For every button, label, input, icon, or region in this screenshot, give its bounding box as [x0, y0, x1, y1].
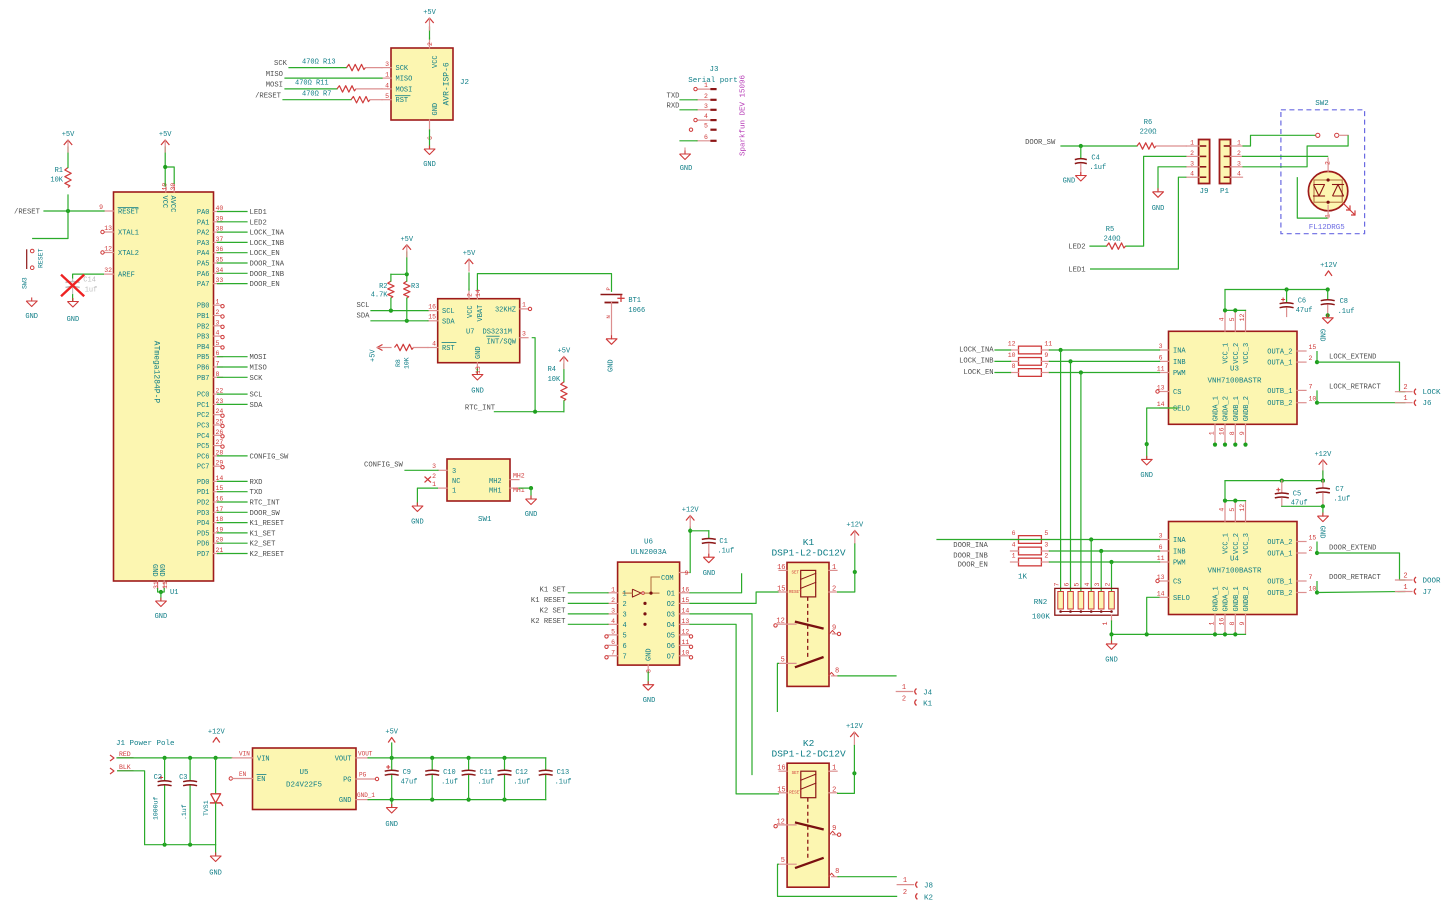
wire LOCK_INA to U3 INA: [1049, 348, 1159, 352]
ground RN2: [1105, 634, 1118, 664]
svg-text:8: 8: [1012, 363, 1016, 370]
connector J9: [1199, 140, 1210, 197]
U3 pin OUTA_1 2: [1267, 355, 1312, 368]
ground U6: [643, 682, 656, 705]
ground SW1 MH1: [525, 496, 538, 519]
svg-text:RXD: RXD: [667, 103, 680, 111]
K1 pin 15: [777, 586, 787, 594]
svg-text:VCC_1: VCC_1: [1223, 343, 1231, 364]
svg-text:SW2: SW2: [1315, 100, 1329, 108]
svg-text:C8: C8: [1340, 298, 1348, 306]
svg-text:LED2: LED2: [1068, 244, 1085, 252]
wire +5V to U1 VCC: [163, 147, 174, 186]
svg-text:MOSI: MOSI: [266, 82, 283, 90]
svg-text:+5V: +5V: [558, 348, 571, 356]
svg-text:PB6: PB6: [197, 365, 210, 373]
ground SW1 pin1: [411, 503, 424, 527]
wire K2 pin8: [838, 876, 896, 878]
K1 dashed actuator link: [807, 597, 809, 660]
svg-text:OUTB_2: OUTB_2: [1267, 400, 1292, 408]
svg-text:1: 1: [704, 82, 708, 89]
wire K1_SET: [218, 532, 248, 534]
svg-text:GNDA_2: GNDA_2: [1223, 586, 1231, 611]
net label LOCK_EN: [250, 250, 280, 258]
wire J9 pin4 to LED1: [1090, 177, 1186, 269]
svg-text:3: 3: [1159, 343, 1163, 350]
diode TVS1: [203, 758, 223, 845]
wire DOOR_EN to U4 PWM: [1049, 560, 1159, 564]
svg-text:OUTA_2: OUTA_2: [1267, 539, 1292, 547]
wire K1_RESET: [218, 522, 248, 524]
svg-text:4: 4: [704, 113, 708, 120]
net label LOCK_INB: [959, 358, 994, 366]
U1 pin PB2 3: [197, 319, 223, 331]
wire RN2 col7: [1060, 350, 1062, 592]
svg-text:.1uf: .1uf: [555, 779, 572, 787]
U3 pin OUTB_2 10: [1267, 396, 1316, 409]
wire TXD J3: [680, 99, 697, 101]
svg-text:R1: R1: [55, 167, 63, 175]
svg-text:+12V: +12V: [846, 522, 864, 530]
capacitor C10 .1uf: [425, 758, 458, 800]
wire J3 pin6: [680, 140, 697, 142]
U7 pin INT/SQW 3: [487, 331, 528, 347]
SW1 pin MH1: [510, 487, 525, 494]
svg-text:LOCK_INB: LOCK_INB: [250, 240, 285, 248]
svg-text:5: 5: [781, 857, 785, 865]
SW1 pin 3: [432, 463, 447, 470]
svg-text:12: 12: [776, 819, 784, 827]
wire U6 GND: [647, 672, 649, 684]
wire LOCK_EN: [218, 252, 248, 254]
svg-text:SCL: SCL: [357, 302, 370, 310]
svg-text:1: 1: [452, 488, 456, 496]
svg-text:3: 3: [1094, 583, 1101, 587]
svg-text:OUTA_1: OUTA_1: [1267, 360, 1292, 368]
J3 pin 5: [689, 123, 715, 132]
svg-text:6: 6: [1159, 544, 1163, 551]
wire INT/SQW to RTC_INT: [532, 338, 535, 412]
svg-text:K2: K2: [924, 894, 933, 902]
svg-text:+5V: +5V: [423, 9, 436, 17]
svg-text:XTAL2: XTAL2: [118, 250, 139, 258]
svg-text:RESET: RESET: [38, 248, 45, 268]
svg-text:PD2: PD2: [197, 500, 210, 508]
resistor pack element pins 6-5: [1011, 530, 1050, 543]
net label LOCK_INA: [959, 346, 994, 354]
svg-text:SET: SET: [792, 571, 800, 575]
svg-text:4: 4: [1237, 171, 1241, 178]
svg-text:R4: R4: [548, 366, 556, 374]
K2 pin 1: [829, 765, 837, 773]
U5 pin VIN: [232, 751, 269, 764]
svg-text:RTC_INT: RTC_INT: [250, 500, 281, 508]
svg-text:2: 2: [1325, 161, 1332, 165]
ground power input: [209, 845, 222, 878]
svg-text:PB7: PB7: [197, 375, 210, 383]
resistor pack element pins 8-7: [1011, 363, 1050, 376]
svg-text:K1_SET: K1_SET: [250, 530, 277, 538]
svg-text:GND: GND: [703, 570, 716, 578]
IC U4 VNH7100BASTR: [1169, 522, 1298, 615]
svg-text:O1: O1: [667, 590, 675, 598]
svg-text:4: 4: [216, 330, 220, 337]
IC U3 VNH7100BASTR: [1169, 331, 1298, 424]
svg-text:VCC_2: VCC_2: [1233, 343, 1241, 364]
svg-text:RST: RST: [396, 97, 409, 105]
svg-text:PD3: PD3: [197, 510, 210, 518]
net label K1_RESET: [250, 520, 285, 528]
svg-text:U1: U1: [170, 589, 178, 597]
svg-text:GND: GND: [25, 313, 38, 321]
svg-text:VNH7100BASTR: VNH7100BASTR: [1207, 568, 1262, 576]
svg-text:+12V: +12V: [846, 723, 864, 731]
svg-text:VCC: VCC: [467, 305, 475, 318]
svg-text:5: 5: [781, 656, 785, 664]
svg-text:R2: R2: [379, 283, 387, 291]
svg-text:9: 9: [99, 204, 103, 211]
svg-text:.1uf: .1uf: [441, 779, 458, 787]
svg-text:DS3231M: DS3231M: [483, 329, 512, 337]
wire DOOR_INA to U4 INA: [937, 537, 1160, 541]
svg-text:VCC_1: VCC_1: [1223, 533, 1231, 554]
svg-text:TXD: TXD: [250, 489, 263, 497]
SW2 contact circles: [1316, 133, 1339, 137]
svg-text:U5: U5: [299, 769, 309, 777]
wire LED2: [218, 221, 248, 223]
svg-text:2: 2: [1309, 355, 1313, 362]
svg-text:5: 5: [1074, 583, 1081, 587]
K1 pin 1: [829, 564, 837, 572]
svg-text:D24V22F5: D24V22F5: [286, 782, 323, 790]
svg-text:CONFIG_SW: CONFIG_SW: [250, 453, 290, 461]
svg-text:GND: GND: [680, 165, 693, 173]
wire RN2 col6: [1070, 361, 1072, 592]
U6 pin 2: [608, 597, 627, 609]
resistor pack element pins 10-9: [1008, 352, 1050, 365]
U1 pin PB0 1: [197, 299, 223, 311]
svg-text:GND: GND: [157, 564, 165, 577]
K1 contact pin 9: [830, 624, 841, 635]
svg-text:1: 1: [385, 72, 389, 79]
svg-text:INA: INA: [1173, 348, 1186, 356]
U1 pin PD7 21: [197, 547, 224, 559]
svg-text:CS: CS: [1173, 389, 1181, 397]
J9 pin 4: [1186, 171, 1198, 178]
svg-text:J8: J8: [924, 883, 933, 891]
svg-text:PC0: PC0: [197, 392, 210, 400]
wire MISO J2: [285, 77, 382, 79]
svg-text:15: 15: [777, 586, 785, 594]
net label RXD: [250, 479, 263, 487]
svg-text:1: 1: [1012, 553, 1016, 560]
U1 pin PA2 38: [197, 226, 224, 238]
RN2 pin 1: [1102, 615, 1112, 625]
wire SDA: [218, 403, 248, 405]
net label LOCK_INA: [250, 230, 285, 238]
svg-text:MISO: MISO: [250, 365, 267, 373]
svg-text:EN: EN: [257, 776, 265, 784]
svg-text:MOSI: MOSI: [396, 86, 413, 94]
svg-text:2: 2: [1309, 546, 1313, 553]
connector P1: [1220, 140, 1231, 197]
ground J3: [680, 148, 693, 173]
svg-text:8: 8: [835, 868, 839, 876]
svg-text:C6: C6: [1298, 298, 1306, 306]
svg-text:K1 SET: K1 SET: [540, 586, 567, 594]
connector J8: [897, 877, 933, 902]
svg-text:PA1: PA1: [197, 219, 210, 227]
supply +5V J2: [423, 9, 436, 30]
svg-text:2: 2: [1104, 583, 1111, 587]
svg-text:INA: INA: [1173, 537, 1186, 545]
capacitor C8 .1uf: [1321, 290, 1355, 318]
unconnected pin 4: [221, 335, 224, 338]
svg-text:MOSI: MOSI: [250, 354, 267, 362]
U1 pin PA3 37: [197, 236, 224, 248]
resistor R7 470ohm: [283, 91, 382, 103]
svg-text:OUTB_1: OUTB_1: [1267, 579, 1292, 587]
svg-text:VOUT: VOUT: [335, 755, 352, 763]
wire J2 VCC to +5V: [429, 27, 431, 39]
unconnected pin 5: [221, 346, 224, 349]
U6 internal driver symbol: [623, 575, 674, 626]
U5 pin EN: [229, 771, 266, 784]
U1 pin GND 11: [157, 564, 169, 589]
svg-text:OUTA_2: OUTA_2: [1267, 349, 1292, 357]
svg-text:ATmega1284P-P: ATmega1284P-P: [152, 341, 161, 404]
svg-text:2: 2: [832, 786, 836, 794]
wire DOOR_INB to U4 INB: [1049, 549, 1159, 553]
svg-text:5: 5: [1229, 317, 1236, 321]
svg-text:12: 12: [104, 246, 112, 253]
svg-text:PB0: PB0: [197, 303, 210, 311]
svg-text:VIN: VIN: [239, 751, 250, 758]
svg-text:2: 2: [1237, 150, 1241, 157]
svg-text:J3: J3: [709, 66, 719, 74]
svg-text:+5V: +5V: [385, 729, 398, 737]
svg-text:SCL: SCL: [442, 308, 455, 316]
K1 contact pin 5: [779, 656, 796, 664]
svg-text:15: 15: [1309, 344, 1317, 351]
svg-text:VCC: VCC: [160, 196, 168, 209]
svg-text:9: 9: [685, 570, 689, 577]
wire LOCK_EN to U3 PWM: [1049, 370, 1159, 374]
unconnected pin 26: [221, 435, 224, 438]
U1 pin PC6 28: [197, 449, 224, 461]
svg-text:15: 15: [682, 597, 690, 604]
U1 pin PC1 23: [197, 398, 224, 410]
U1 pin PB4 5: [197, 340, 223, 352]
svg-text:+12V: +12V: [208, 729, 226, 737]
U1 pin PB7 8: [197, 371, 223, 383]
svg-text:7: 7: [623, 653, 627, 661]
wire J1 BLK down: [117, 771, 216, 847]
U3 VCC pins 4 5 12: [1219, 310, 1251, 363]
svg-text:1: 1: [623, 590, 627, 598]
svg-text:1K: 1K: [1018, 574, 1028, 582]
resistor R4 10K: [548, 364, 568, 412]
svg-text:J9: J9: [1199, 188, 1208, 196]
wire GND_1 rail: [368, 798, 546, 802]
U1 pin PD3 17: [197, 506, 224, 518]
svg-text:RESET: RESET: [118, 209, 139, 217]
capacitor C2 1000uf: [153, 758, 172, 845]
svg-text:PB4: PB4: [197, 344, 210, 352]
svg-text:.1uf: .1uf: [717, 548, 734, 556]
wire TXD: [218, 491, 248, 493]
wire VOUT rail: [368, 756, 546, 760]
svg-text:C12: C12: [515, 769, 528, 777]
svg-text:GNDA_1: GNDA_1: [1213, 396, 1221, 421]
svg-text:9: 9: [1044, 352, 1048, 359]
svg-text:14: 14: [1157, 590, 1165, 597]
J3 pin 4: [694, 113, 716, 122]
svg-text:R3: R3: [411, 283, 419, 291]
svg-text:10: 10: [682, 649, 690, 656]
svg-text:PA2: PA2: [197, 230, 210, 238]
J2 pin MISO 1: [382, 72, 412, 84]
wire DOOR_INB: [218, 272, 248, 274]
wire J9 pin2 to R5 LED2: [1125, 156, 1186, 246]
svg-text:4: 4: [1219, 317, 1226, 321]
U1 pin PA6 34: [197, 267, 224, 279]
svg-text:K2: K2: [803, 738, 815, 749]
svg-text:12: 12: [776, 618, 784, 626]
svg-text:1066: 1066: [628, 307, 645, 315]
net label K2_SET: [540, 607, 567, 615]
U7 pin VCC 2: [466, 289, 475, 318]
U4 GND pins 1 16 8 9: [1209, 586, 1251, 633]
wire SCL: [218, 393, 248, 395]
wire O3 to K2 SET: [690, 614, 753, 775]
svg-text:3: 3: [704, 103, 708, 110]
wire RXD J3: [680, 109, 697, 111]
svg-text:16: 16: [682, 586, 690, 593]
svg-text:7: 7: [1053, 583, 1060, 587]
U1 pin PA7 33: [197, 277, 224, 289]
wire /RESET to U1: [44, 209, 104, 213]
svg-text:2: 2: [1044, 553, 1048, 560]
resistor pack element pins 12-11: [1008, 341, 1053, 354]
supply +5V R8 (left arrow): [370, 345, 392, 363]
svg-text:R5: R5: [1106, 226, 1114, 234]
svg-text:C9: C9: [403, 769, 411, 777]
U3 GND pins 1 16 8 9: [1209, 396, 1251, 443]
svg-text:10K: 10K: [548, 376, 561, 384]
wire SDA: [371, 319, 428, 323]
wire LOCK_RETRACT to J6 pin1: [1317, 402, 1406, 404]
svg-text:VCC: VCC: [432, 55, 440, 68]
wire K1_RESET: [568, 602, 608, 604]
svg-text:Sparkfun DEV 15096: Sparkfun DEV 15096: [740, 74, 748, 156]
P1 pin 3: [1231, 160, 1243, 167]
svg-text:GND: GND: [339, 797, 352, 805]
wire C14 to ground: [72, 295, 74, 301]
svg-text:K2_SET: K2_SET: [250, 541, 277, 549]
svg-text:K1 RESET: K1 RESET: [531, 597, 566, 605]
P1 pin 2: [1231, 150, 1243, 157]
svg-text:13: 13: [682, 618, 690, 625]
svg-text:GND_1: GND_1: [357, 792, 375, 799]
net label /RESET (J2): [255, 93, 282, 101]
supply +12V U6: [682, 507, 700, 528]
K2 contact pin 9: [830, 825, 841, 836]
svg-text:9: 9: [832, 624, 836, 632]
svg-text:PB3: PB3: [197, 334, 210, 342]
svg-text:INT/SQW: INT/SQW: [487, 338, 517, 346]
svg-text:PA6: PA6: [197, 271, 210, 279]
U7 pin 32KHZ 1: [495, 302, 532, 315]
wire K2 pin5 to J8: [778, 864, 898, 896]
svg-text:32: 32: [104, 267, 112, 274]
U4 pin OUTB_1 7: [1267, 574, 1312, 587]
svg-text:6: 6: [704, 134, 708, 141]
svg-text:6: 6: [611, 639, 615, 646]
svg-text:RN2: RN2: [1034, 599, 1048, 607]
svg-text:AVR-ISP-6: AVR-ISP-6: [443, 62, 452, 105]
wire SCL: [371, 309, 428, 313]
J3 pin 2: [697, 93, 716, 100]
net label SCL (U7): [357, 302, 370, 310]
svg-text:5: 5: [385, 93, 389, 100]
svg-text:3: 3: [432, 463, 436, 470]
svg-text:8: 8: [1229, 622, 1236, 626]
resistor R5 240ohm: [1090, 226, 1126, 249]
svg-text:2: 2: [216, 309, 220, 316]
svg-text:1: 1: [903, 877, 907, 885]
wire DOOR_SW to R6: [1061, 144, 1137, 148]
K1 contact arm A: [796, 622, 823, 629]
resistor R3 10K: [404, 281, 420, 321]
svg-text:GND: GND: [423, 161, 436, 169]
capacitor C9 47uf: [385, 758, 418, 800]
svg-text:11: 11: [162, 581, 169, 589]
U1 pin PD0 14: [197, 475, 224, 487]
K1 contact arm B: [796, 657, 823, 667]
wire LOCK_INB: [218, 241, 248, 243]
net label CONFIG_SW: [250, 453, 290, 461]
svg-text:1: 1: [522, 302, 526, 309]
svg-text:1: 1: [216, 299, 220, 306]
svg-text:4: 4: [1219, 508, 1226, 512]
U3 pin CS 13: [1156, 385, 1182, 398]
svg-text:O5: O5: [667, 632, 675, 640]
U7 pin GND 13: [475, 346, 483, 374]
svg-text:VCC_3: VCC_3: [1243, 533, 1251, 554]
svg-text:+5V: +5V: [370, 349, 378, 362]
svg-text:+12V: +12V: [1314, 451, 1332, 459]
svg-text:.1uf: .1uf: [1338, 308, 1355, 316]
switch SW1: [447, 459, 510, 524]
wire K1 pin5: [777, 663, 779, 712]
U3 pin OUTA_2 15: [1267, 344, 1316, 357]
svg-text:+12V: +12V: [682, 507, 700, 515]
switch SW3 RESET: [22, 248, 45, 289]
svg-text:5: 5: [1229, 508, 1236, 512]
svg-text:6: 6: [1159, 354, 1163, 361]
svg-text:SW3: SW3: [22, 277, 29, 289]
svg-text:.1uf: .1uf: [478, 779, 495, 787]
wire RN2 col3: [1100, 551, 1102, 592]
svg-text:4: 4: [1190, 171, 1194, 178]
svg-text:1: 1: [832, 564, 836, 572]
K2 contact pin 5: [779, 857, 796, 865]
U4 pin CS 13: [1156, 574, 1182, 587]
svg-text:+5V: +5V: [400, 236, 413, 244]
svg-text:CS: CS: [1173, 579, 1181, 587]
wire RTC_INT: [218, 501, 248, 503]
